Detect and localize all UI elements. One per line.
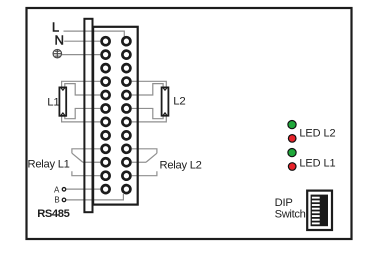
label DIP bbox=[275, 197, 293, 209]
label L1 bbox=[47, 96, 59, 108]
svg-text:LED L1: LED L1 bbox=[299, 157, 335, 169]
wire lamp L2 pin1 to row4 bbox=[132, 81, 167, 87]
label Relay L2 bbox=[160, 159, 202, 171]
lamp L1 tube bbox=[59, 87, 66, 115]
svg-text:DIP: DIP bbox=[275, 197, 293, 209]
terminal row10 left bbox=[102, 158, 110, 166]
svg-text:B: B bbox=[54, 196, 59, 205]
wire lamp L1 pin2 to row5 bbox=[65, 84, 101, 95]
relay L2 contact symbol bbox=[132, 149, 157, 176]
terminal row5 right bbox=[122, 91, 130, 99]
label LED L2 bbox=[299, 127, 335, 139]
LED L2 green indicator bbox=[288, 121, 296, 129]
terminal row7 left bbox=[102, 118, 110, 126]
terminal row6 left bbox=[102, 104, 110, 112]
terminal B bbox=[62, 198, 66, 202]
terminal row2 left bbox=[102, 51, 110, 59]
wire L to terminal row1 right bbox=[64, 31, 125, 36]
svg-text:L2: L2 bbox=[173, 96, 185, 108]
terminal row4 left bbox=[102, 78, 110, 86]
LED L1 red indicator bbox=[288, 163, 296, 171]
terminal row1 right bbox=[122, 37, 130, 45]
terminal strip bar bbox=[84, 19, 92, 212]
earth symbol bbox=[53, 50, 61, 58]
wire RS485 B to row12 right bbox=[66, 194, 123, 200]
svg-text:N: N bbox=[55, 32, 65, 47]
terminal A bbox=[62, 188, 66, 192]
svg-text:Switch: Switch bbox=[275, 209, 306, 221]
LED L2 red indicator bbox=[288, 135, 296, 143]
terminal row6 right bbox=[122, 104, 130, 112]
terminal row12 left bbox=[102, 185, 110, 193]
terminal row11 right bbox=[122, 172, 130, 180]
terminal row8 right bbox=[122, 131, 130, 139]
svg-text:LED L2: LED L2 bbox=[299, 127, 335, 139]
LED L1 green indicator bbox=[288, 149, 296, 157]
wire lamp L2 pin2 to row5 bbox=[132, 84, 163, 95]
wire lamp L1 pin3 to row6 bbox=[65, 108, 101, 118]
wire lamp L2 pin3 to row6 bbox=[132, 108, 163, 118]
wire lamp L1 pin1 to row4 bbox=[62, 81, 101, 87]
terminal row1 left bbox=[102, 37, 110, 45]
wire lamp L1 pin4 to row7 bbox=[62, 116, 101, 122]
terminal row9 left bbox=[102, 145, 110, 153]
wire lamp L2 pin4 to row7 bbox=[132, 116, 167, 122]
svg-text:L1: L1 bbox=[47, 96, 59, 108]
label L bbox=[52, 20, 59, 35]
relay L1 contact symbol bbox=[72, 149, 100, 176]
label L2 bbox=[173, 96, 185, 108]
label RS485 bbox=[37, 208, 69, 220]
DIP switch body bbox=[307, 191, 332, 230]
terminal row4 right bbox=[122, 78, 130, 86]
wire RS485 A to row12 left bbox=[66, 188, 100, 190]
terminal block body bbox=[93, 27, 138, 205]
label Relay L1 bbox=[28, 158, 70, 170]
lamp L2 tube bbox=[162, 87, 169, 115]
label LED L1 bbox=[299, 157, 335, 169]
label B bbox=[54, 196, 59, 205]
DIP switch levers bbox=[312, 197, 320, 225]
terminal row2 right bbox=[122, 51, 130, 59]
terminal row5 left bbox=[102, 91, 110, 99]
terminal row3 right bbox=[122, 64, 130, 72]
svg-text:Relay L2: Relay L2 bbox=[160, 159, 202, 171]
terminal row11 left bbox=[102, 172, 110, 180]
label Switch bbox=[275, 209, 306, 221]
label A bbox=[54, 186, 60, 195]
panel enclosure border bbox=[27, 8, 352, 239]
terminal row7 right bbox=[122, 118, 130, 126]
terminal row10 right bbox=[122, 158, 130, 166]
label N bbox=[55, 32, 65, 47]
wire N to terminal row1 left bbox=[64, 40, 100, 42]
terminal row12 right bbox=[122, 185, 130, 193]
terminal row9 right bbox=[122, 145, 130, 153]
terminal row3 left bbox=[102, 64, 110, 72]
svg-text:Relay L1: Relay L1 bbox=[28, 158, 70, 170]
svg-text:A: A bbox=[54, 186, 60, 195]
svg-text:RS485: RS485 bbox=[37, 208, 69, 220]
wire earth to terminal row2 left bbox=[62, 54, 100, 56]
terminal row8 left bbox=[102, 131, 110, 139]
